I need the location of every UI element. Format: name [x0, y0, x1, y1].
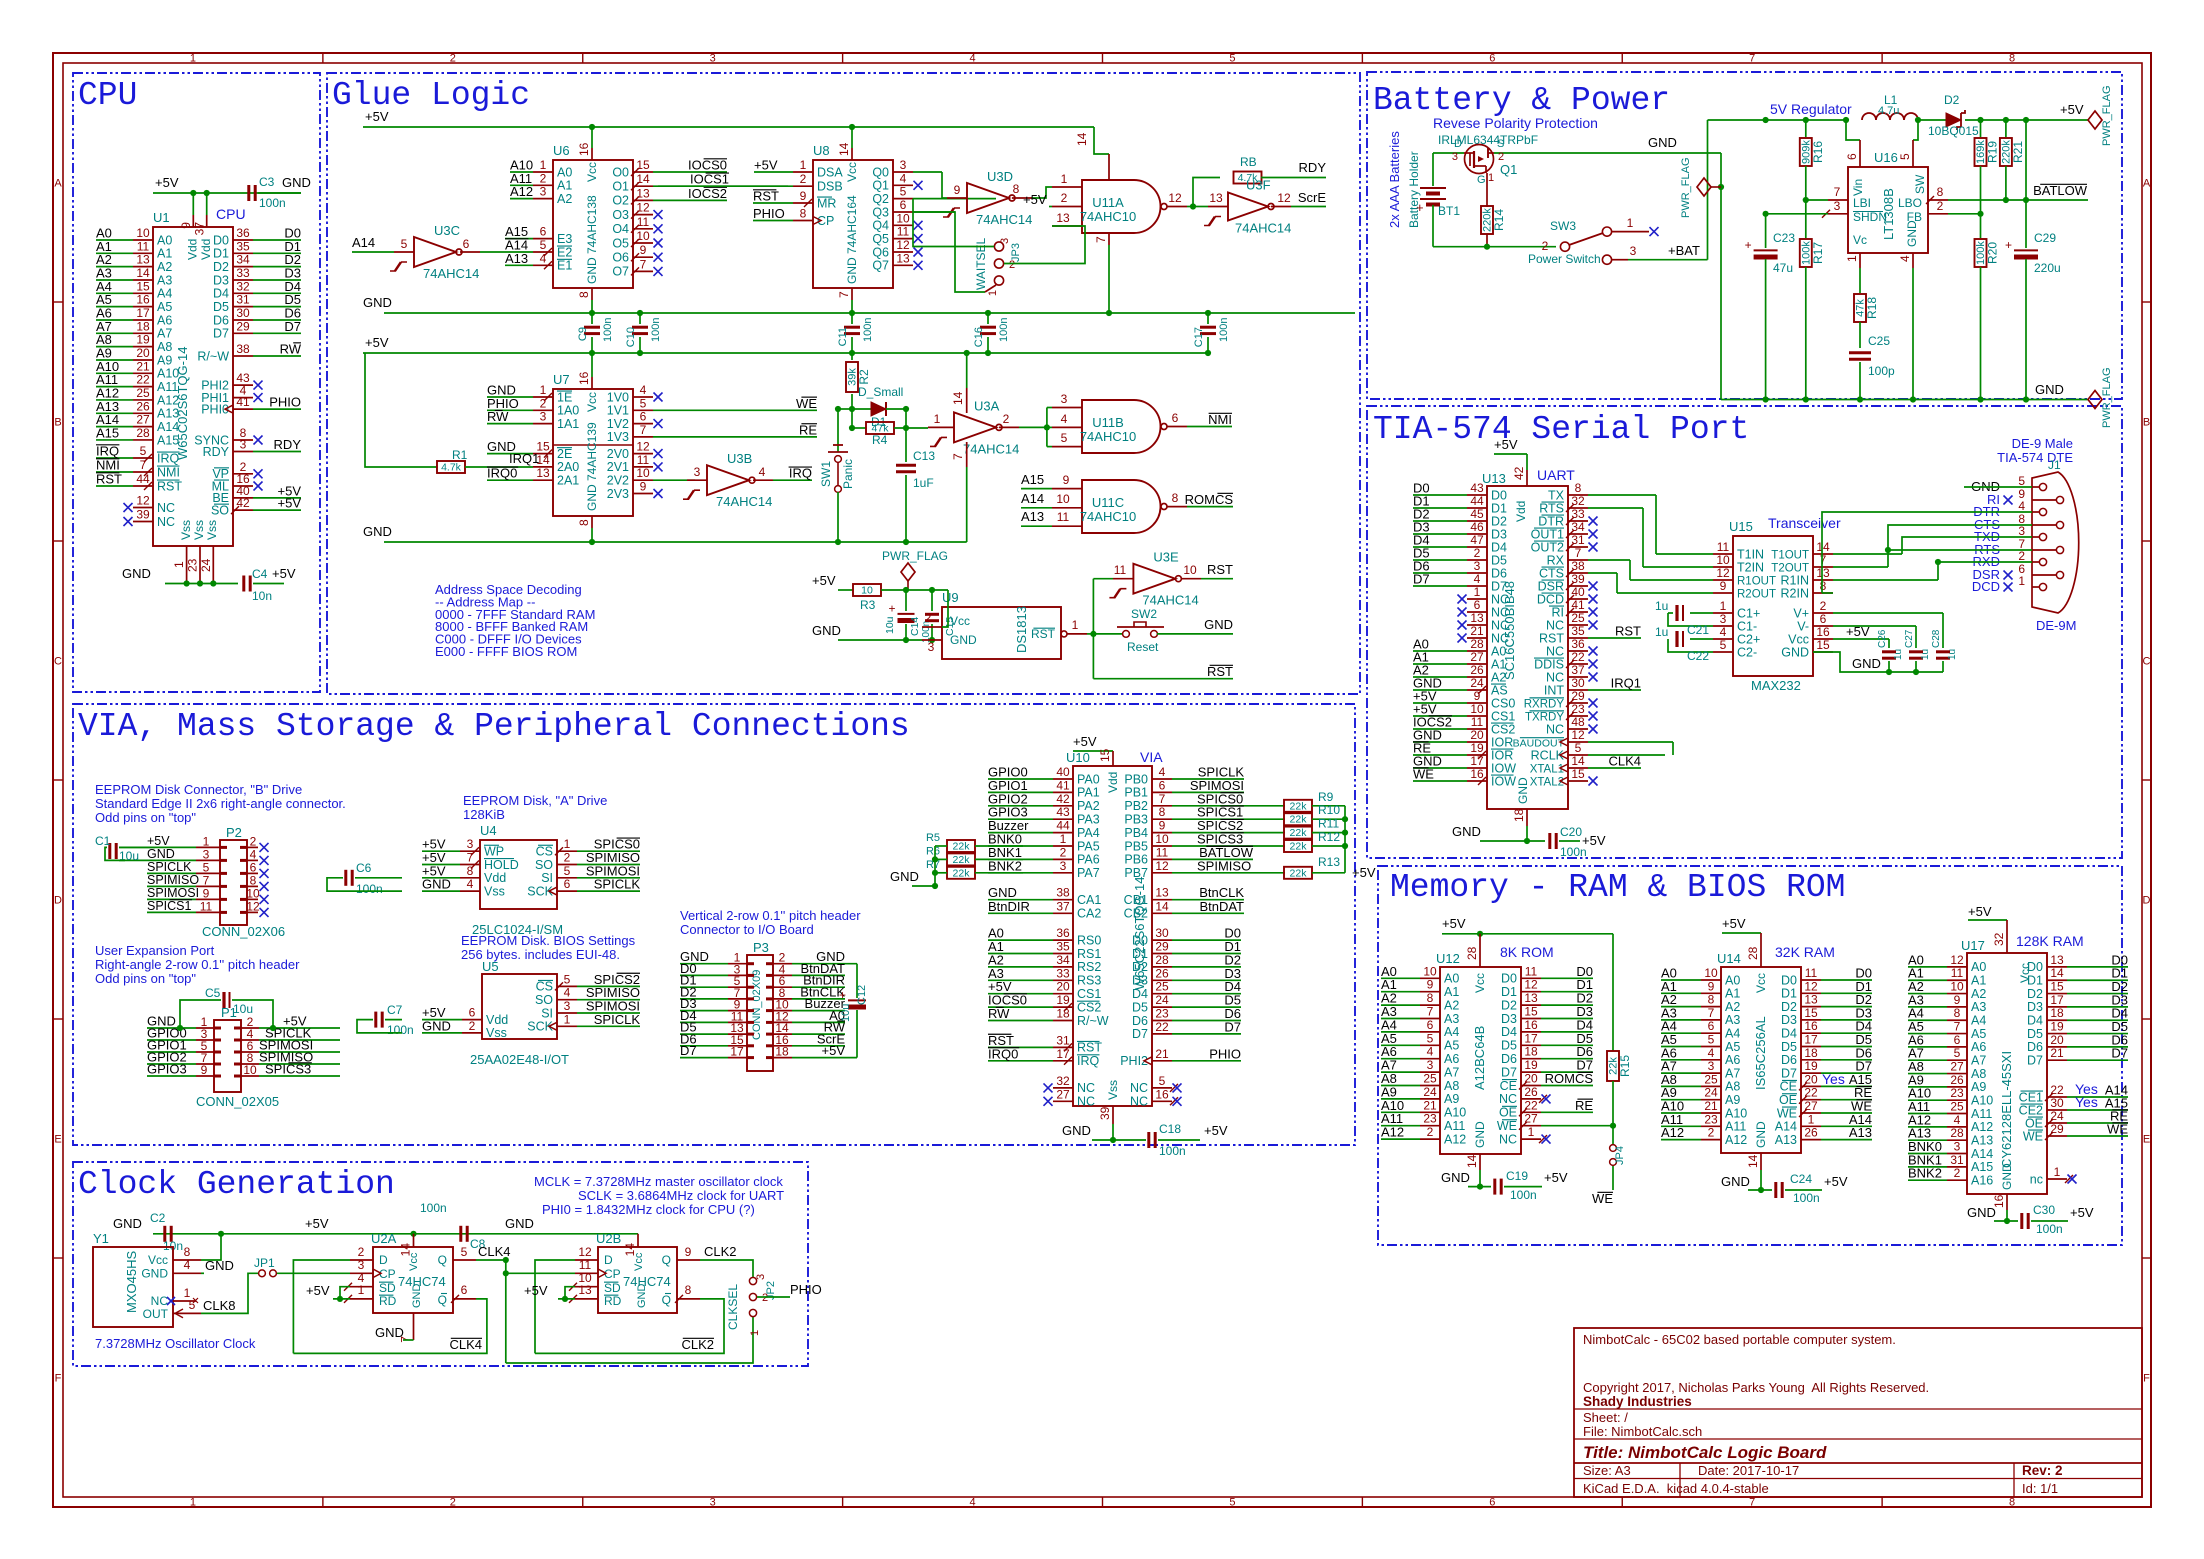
frame column ticks and numbers: [322, 53, 324, 63]
svg-text:1: 1: [934, 412, 941, 426]
svg-text:13: 13: [136, 253, 150, 267]
svg-text:C1: C1: [95, 834, 111, 848]
section box: Memory RAM & BIOS ROM: [1378, 866, 2122, 1245]
svg-text:C1-: C1-: [1737, 619, 1757, 633]
svg-text:JP4: JP4: [1614, 1146, 1626, 1165]
svg-text:D5: D5: [1781, 1040, 1797, 1054]
Y1 NC pin 1: [167, 1297, 175, 1305]
P3 pin 18: [773, 1057, 792, 1059]
svg-text:2V1: 2V1: [607, 460, 629, 474]
svg-text:NC: NC: [157, 501, 175, 515]
capacitor C30: [2020, 1213, 2023, 1229]
svg-text:BNK2: BNK2: [988, 858, 1022, 873]
svg-text:22: 22: [2050, 1083, 2064, 1097]
svg-text:22k: 22k: [1290, 800, 1308, 812]
U17 CY62128 RAM pin 29: [2047, 1135, 2067, 1137]
svg-text:28: 28: [1470, 637, 1484, 651]
svg-text:GND 74AHC164: GND 74AHC164: [845, 195, 859, 284]
U8 74AHC164 pin 1: [793, 171, 813, 173]
svg-text:A4: A4: [157, 287, 172, 301]
svg-text:Q1: Q1: [872, 179, 889, 193]
U6 74AHC138 pin 6: [533, 238, 553, 240]
svg-text:11: 11: [637, 215, 650, 229]
svg-text:2: 2: [1427, 1125, 1434, 1139]
svg-text:9: 9: [640, 243, 647, 257]
svg-text:A4: A4: [1725, 1027, 1740, 1041]
svg-text:5: 5: [140, 444, 147, 458]
P3 pin 4: [773, 974, 792, 976]
svg-text:C: C: [54, 656, 62, 668]
svg-text:OE: OE: [1499, 1106, 1517, 1120]
svg-text:11: 11: [200, 899, 213, 913]
op-amp U1 (W65C02 CPU) pin 20: [133, 359, 153, 361]
svg-text:CLK4: CLK4: [449, 1337, 482, 1352]
svg-text:100n: 100n: [650, 318, 662, 342]
svg-text:RW: RW: [487, 409, 509, 424]
svg-text:26: 26: [1470, 663, 1484, 677]
svg-text:9: 9: [203, 886, 210, 900]
svg-text:C6: C6: [356, 861, 372, 875]
U15 MAX232 pin 12: [1713, 579, 1733, 581]
svg-text:D6: D6: [2027, 1040, 2043, 1054]
svg-text:2: 2: [1937, 199, 1944, 213]
svg-text:C1+: C1+: [1737, 606, 1760, 620]
svg-text:32: 32: [1056, 1074, 1070, 1088]
GND drop on right: [1720, 153, 1722, 400]
svg-text:3: 3: [1060, 859, 1067, 873]
resistor R12 22k: [1284, 840, 1312, 852]
op-amp U1 (W65C02 CPU) pin 11: [133, 252, 153, 254]
svg-text:12: 12: [1950, 953, 1964, 967]
svg-text:RST: RST: [1207, 562, 1233, 577]
svg-text:C24: C24: [1790, 1172, 1812, 1186]
U4 25LC1024 body: [480, 840, 557, 909]
svg-text:EEPROM Disk Connector, "B" Dri: EEPROM Disk Connector, "B" Drive: [95, 782, 302, 797]
svg-text:13: 13: [1056, 211, 1070, 225]
svg-text:10: 10: [636, 229, 650, 243]
svg-text:6: 6: [1427, 1018, 1434, 1032]
svg-text:U2A: U2A: [371, 1231, 397, 1246]
svg-text:IOR: IOR: [1491, 735, 1513, 749]
junction U6 Vcc: [589, 124, 595, 130]
svg-text:11: 11: [1114, 563, 1127, 577]
svg-text:10: 10: [1155, 832, 1169, 846]
svg-text:R/~W: R/~W: [1077, 1014, 1109, 1028]
svg-text:DS1813: DS1813: [1014, 606, 1029, 653]
svg-text:Vss: Vss: [484, 884, 505, 898]
U13 SC16C550B UART pin 48: [1568, 728, 1588, 730]
svg-text:RST: RST: [1031, 627, 1056, 641]
svg-text:3: 3: [1954, 1140, 1961, 1154]
svg-text:A12BC64B: A12BC64B: [1472, 1026, 1487, 1090]
resistor R6 22k: [947, 853, 975, 865]
op-amp U1 (W65C02 CPU) pin 39: [133, 521, 153, 523]
svg-text:6: 6: [461, 1283, 468, 1297]
svg-text:1u: 1u: [1655, 599, 1668, 613]
svg-text:D2: D2: [2027, 987, 2043, 1001]
svg-text:18: 18: [136, 319, 150, 333]
svg-text:IRQ1: IRQ1: [1611, 676, 1641, 691]
svg-text:D7: D7: [1413, 572, 1430, 587]
svg-text:7: 7: [1954, 1020, 1961, 1034]
svg-text:14: 14: [1571, 754, 1585, 768]
svg-text:11: 11: [897, 225, 910, 239]
svg-text:10: 10: [1470, 702, 1484, 716]
svg-text:1: 1: [190, 1497, 196, 1509]
CLK4 to U2B CP and JP2: [505, 1260, 507, 1363]
svg-text:A6: A6: [1971, 1040, 1986, 1054]
svg-text:5: 5: [564, 864, 571, 878]
op-amp U1 (W65C02 CPU) pin 16: [133, 306, 153, 308]
U1 Vss pin 24: [212, 546, 214, 584]
svg-text:2: 2: [800, 172, 807, 186]
U8 74AHC164 pin 5: [893, 198, 913, 200]
svg-text:1: 1: [1845, 255, 1859, 262]
svg-text:14: 14: [1155, 899, 1169, 913]
svg-text:A1: A1: [557, 179, 572, 193]
svg-text:DDIS: DDIS: [1534, 657, 1564, 671]
svg-text:R11: R11: [1318, 817, 1339, 831]
svg-text:Date: 2017-10-17: Date: 2017-10-17: [1698, 1463, 1799, 1478]
svg-text:V-: V-: [1797, 619, 1809, 633]
svg-text:A: A: [2143, 178, 2151, 190]
svg-text:Vss: Vss: [205, 520, 219, 540]
svg-text:2: 2: [450, 1497, 456, 1509]
U15 MAX232 pin 4: [1713, 638, 1733, 640]
U12 AT28BC64B ROM pin 10: [1420, 977, 1440, 979]
U6 74AHC138 pin 3: [533, 198, 553, 200]
svg-text:RS2: RS2: [1077, 960, 1101, 974]
svg-text:Shady Industries: Shady Industries: [1583, 1394, 1692, 1409]
svg-text:10: 10: [246, 886, 260, 900]
svg-text:R5: R5: [926, 832, 940, 844]
svg-text:13: 13: [896, 251, 910, 265]
svg-text:C16: C16: [973, 327, 985, 347]
svg-text:74AHC14: 74AHC14: [423, 266, 479, 281]
U7 74AHC139 pin 9: [633, 493, 653, 495]
P2 pin 11: [196, 911, 220, 913]
svg-text:E3: E3: [557, 232, 572, 246]
svg-text:WE: WE: [796, 396, 817, 411]
svg-text:17: 17: [1056, 1047, 1070, 1061]
svg-text:T1IN: T1IN: [1737, 547, 1764, 561]
GND return under caps: [1813, 652, 1943, 672]
svg-text:Vcc: Vcc: [1473, 973, 1487, 993]
svg-text:NC: NC: [1546, 644, 1564, 658]
svg-text:D1: D1: [213, 247, 229, 261]
U4 25LC1024 pin 3: [460, 850, 480, 852]
P1 pin 1: [196, 1027, 214, 1029]
svg-text:47: 47: [1470, 533, 1484, 547]
svg-text:7: 7: [1094, 236, 1108, 243]
svg-text:3: 3: [358, 1258, 365, 1272]
svg-text:R2IN: R2IN: [1781, 586, 1809, 600]
U12 AT28BC64B ROM pin 8: [1420, 1004, 1440, 1006]
svg-text:WE: WE: [1592, 1191, 1613, 1206]
U11B output pin 6 NMI: [1167, 426, 1187, 428]
P3 pin 14: [773, 1033, 792, 1035]
P2 pin 1: [196, 846, 220, 848]
svg-text:U12: U12: [1436, 951, 1460, 966]
svg-text:RDY: RDY: [274, 437, 302, 452]
svg-text:A0: A0: [1971, 960, 1986, 974]
svg-text:6: 6: [1845, 153, 1859, 160]
svg-text:SD: SD: [379, 1281, 396, 1295]
U10 W65C22S VIA pin 11: [1152, 858, 1172, 860]
J1 pin 2 RXD: [2039, 558, 2046, 565]
svg-text:10n: 10n: [252, 589, 272, 603]
U10 W65C22S VIA pin 32: [1053, 1087, 1073, 1089]
svg-text:8: 8: [1427, 991, 1434, 1005]
svg-text:4: 4: [1427, 1045, 1434, 1059]
svg-text:45: 45: [1470, 507, 1484, 521]
U17 CY62128 RAM pin 19: [2047, 1033, 2067, 1035]
capacitor C13 1uF: [905, 428, 907, 462]
U3C output to U6 E2: [460, 251, 480, 253]
svg-text:37: 37: [1056, 899, 1070, 913]
junctions on R3 wire: [903, 587, 909, 593]
svg-text:A2: A2: [1971, 987, 1986, 1001]
resistor R1 4.7k: [437, 461, 465, 473]
U5 25AA02E48 pin 5: [557, 985, 577, 987]
U7 74AHC139 pin 10: [633, 479, 653, 481]
svg-text:A10: A10: [1971, 1094, 1993, 1108]
svg-text:14: 14: [623, 1243, 637, 1257]
svg-text:100n: 100n: [1218, 318, 1230, 342]
svg-text:SPICS3: SPICS3: [1197, 832, 1243, 847]
U14 IS65C256AL RAM pin 18: [1801, 1059, 1821, 1061]
svg-text:PB6: PB6: [1124, 853, 1148, 867]
connector P2 CONN_02X06: [220, 840, 247, 925]
svg-text:3: 3: [755, 1274, 767, 1280]
svg-text:RW: RW: [988, 1006, 1010, 1021]
svg-text:Vcc: Vcc: [950, 614, 970, 628]
svg-text:A1: A1: [1444, 985, 1459, 999]
svg-text:CLK2: CLK2: [704, 1244, 737, 1259]
svg-text:Vdd: Vdd: [1514, 501, 1528, 522]
svg-text:SI: SI: [541, 871, 553, 885]
svg-text:CP: CP: [604, 1267, 621, 1281]
svg-text:Q4: Q4: [872, 219, 889, 233]
U13 SC16C550B UART pin 2: [1467, 559, 1487, 561]
svg-text:38: 38: [1056, 886, 1070, 900]
U2B pin 8 Qbar: [677, 1298, 700, 1300]
svg-text:GND: GND: [1062, 1123, 1091, 1138]
U13 SC16C550B UART pin 41: [1568, 611, 1588, 613]
U17 CY62128 RAM pin 5: [1947, 1059, 1967, 1061]
svg-text:3: 3: [1061, 392, 1068, 406]
svg-text:Vdd: Vdd: [1106, 772, 1120, 793]
svg-text:PHIO: PHIO: [790, 1282, 822, 1297]
U4 25LC1024 pin 4: [460, 890, 480, 892]
U15 MAX232 pin 7: [1813, 566, 1833, 568]
U6 74AHC138 pin 13: [633, 199, 653, 201]
svg-text:2: 2: [469, 1019, 476, 1033]
Vin rail y120: [1708, 119, 1847, 121]
svg-text:A13: A13: [1971, 1133, 1993, 1147]
svg-text:20: 20: [1056, 980, 1070, 994]
svg-text:2: 2: [450, 53, 456, 65]
svg-text:HOLD: HOLD: [484, 858, 519, 872]
U13 SC16C550B UART pin 32: [1568, 507, 1588, 509]
svg-text:100n: 100n: [862, 318, 874, 342]
capacitor C19: [1493, 1179, 1496, 1195]
U17 CY62128 RAM pin 4: [1947, 1126, 1967, 1128]
svg-text:4: 4: [1474, 572, 1481, 586]
svg-text:100n: 100n: [356, 882, 383, 896]
U7 Vcc pin 16: [591, 353, 593, 377]
svg-text:3: 3: [710, 1497, 716, 1509]
svg-text:2V2: 2V2: [607, 474, 629, 488]
U15 MAX232 pin 9: [1713, 592, 1733, 594]
svg-text:Copyright 2017, Nicholas Parks: Copyright 2017, Nicholas Parks Young All…: [1583, 1380, 1929, 1395]
svg-text:2: 2: [1061, 191, 1068, 205]
U8 74AHC164 pin 9: [793, 202, 813, 204]
svg-text:R13: R13: [1318, 855, 1340, 869]
U12 AT28BC64B ROM pin 25: [1420, 1085, 1440, 1087]
U7 74AHC139 pin 5: [633, 409, 653, 411]
svg-text:10u: 10u: [840, 1004, 852, 1022]
svg-text:+: +: [839, 988, 846, 1002]
svg-text:A14: A14: [1775, 1120, 1797, 1134]
svg-text:19: 19: [1524, 1058, 1538, 1072]
svg-text:D3: D3: [1491, 527, 1507, 541]
svg-text:F: F: [2143, 1373, 2150, 1385]
svg-text:2: 2: [564, 851, 571, 865]
svg-text:D0: D0: [1501, 972, 1517, 986]
svg-text:1: 1: [564, 1012, 571, 1026]
svg-text:C: C: [2143, 656, 2151, 668]
svg-text:D5: D5: [1491, 553, 1507, 567]
J1 pin 3 TXD: [2039, 533, 2046, 540]
svg-text:9: 9: [1427, 978, 1434, 992]
svg-text:D6: D6: [1501, 1052, 1517, 1066]
svg-text:Yes: Yes: [2075, 1094, 2098, 1110]
op-amp U1 (W65C02 CPU) pin 44: [133, 485, 153, 487]
svg-text:R18: R18: [1865, 297, 1879, 319]
U12 AT28BC64B ROM pin 11: [1521, 977, 1541, 979]
svg-text:A2: A2: [1725, 1000, 1740, 1014]
svg-text:O0: O0: [612, 165, 629, 179]
U6 74AHC138 body: [553, 160, 633, 288]
svg-text:BNK2: BNK2: [1908, 1166, 1942, 1181]
U5 25AA02E48 pin 4: [557, 999, 577, 1001]
svg-text:10: 10: [636, 466, 650, 480]
inductor L1 4.7u: [1862, 113, 1918, 120]
svg-text:12: 12: [1716, 566, 1730, 580]
resistor R5 22k: [947, 840, 975, 852]
svg-text:J1: J1: [2048, 458, 2061, 472]
svg-text:+: +: [1745, 238, 1752, 252]
svg-text:+5V: +5V: [1073, 734, 1097, 749]
svg-text:PB1: PB1: [1124, 786, 1148, 800]
svg-text:E2: E2: [557, 245, 572, 259]
svg-text:18: 18: [1512, 808, 1526, 822]
U15 MAX232 pin 16: [1813, 638, 1833, 640]
svg-text:22k: 22k: [1290, 827, 1308, 839]
U9 pin 3 GND: [922, 639, 942, 641]
U10 W65C22S VIA pin 37: [1053, 912, 1073, 914]
op-amp U1 (W65C02 CPU) body: [153, 227, 233, 546]
svg-text:+: +: [889, 602, 896, 616]
svg-text:22k: 22k: [953, 854, 971, 866]
svg-text:DSB: DSB: [817, 180, 843, 194]
svg-text:22k: 22k: [1290, 867, 1308, 879]
svg-text:RB: RB: [1240, 155, 1257, 169]
svg-text:C27: C27: [1904, 629, 1915, 648]
svg-text:P2: P2: [226, 825, 242, 840]
junction Y1 Vcc: [218, 1231, 224, 1237]
svg-text:+: +: [2005, 238, 2012, 252]
svg-text:C22: C22: [1687, 649, 1709, 663]
svg-text:+5V: +5V: [1846, 624, 1870, 639]
svg-text:14: 14: [636, 172, 650, 186]
svg-text:A15: A15: [1971, 1160, 1993, 1174]
svg-text:OUT2: OUT2: [1531, 540, 1564, 554]
svg-text:28: 28: [136, 426, 150, 440]
U2B pin 11 CP: [575, 1272, 598, 1274]
svg-text:10: 10: [1183, 563, 1197, 577]
svg-text:CLK2: CLK2: [681, 1337, 714, 1352]
+BAT riser to Vin rail: [1707, 120, 1709, 260]
resistor R13 22k: [1284, 867, 1312, 879]
svg-text:4: 4: [184, 1258, 191, 1272]
capacitor C24: [1774, 1182, 1777, 1198]
U13 SC16C550B UART pin 4: [1467, 585, 1487, 587]
svg-text:WE: WE: [2023, 1129, 2043, 1143]
U13 SC16C550B UART pin 3: [1467, 572, 1487, 574]
svg-text:NC: NC: [1546, 618, 1564, 632]
U17 CY62128 RAM pin 7: [1947, 1033, 1967, 1035]
svg-text:3: 3: [2018, 524, 2025, 538]
section box: Battery & Power: [1367, 72, 2122, 399]
U10 W65C22S VIA pin 34: [1053, 966, 1073, 968]
svg-text:6: 6: [1489, 1497, 1495, 1509]
svg-text:R2: R2: [857, 369, 871, 385]
U10 W65C22S VIA body: [1073, 766, 1152, 1106]
svg-text:OE: OE: [2025, 1116, 2043, 1130]
U15 MAX232 pin 10: [1713, 566, 1733, 568]
capacitor C18: [1147, 1132, 1150, 1148]
svg-text:10: 10: [1950, 980, 1964, 994]
svg-text:O2: O2: [612, 194, 629, 208]
U7 74AHC139 pin 1: [533, 396, 553, 398]
wire Q0 to U3D: [942, 172, 947, 198]
svg-text:A3: A3: [1971, 1000, 1986, 1014]
svg-text:34: 34: [1056, 953, 1070, 967]
BAUDOUT-RCLK loop: [1672, 742, 1674, 755]
svg-text:3: 3: [203, 847, 210, 861]
U17 CY62128 RAM pin 3: [1947, 1153, 1967, 1155]
svg-text:NMI: NMI: [96, 458, 120, 473]
svg-text:2: 2: [358, 1245, 365, 1259]
U10 GND pin 39: [1112, 1106, 1114, 1124]
svg-text:4: 4: [540, 251, 547, 265]
svg-text:Q7: Q7: [872, 259, 889, 273]
svg-text:10: 10: [861, 585, 873, 597]
svg-text:14: 14: [136, 266, 150, 280]
junction dot: [849, 425, 855, 431]
svg-text:R6: R6: [926, 845, 940, 857]
svg-text:12: 12: [1804, 979, 1818, 993]
U12 AT28BC64B ROM pin 12: [1521, 991, 1541, 993]
svg-text:74AHC14: 74AHC14: [1142, 593, 1198, 608]
svg-text:25: 25: [136, 386, 150, 400]
svg-text:Rev: 2: Rev: 2: [2022, 1463, 2063, 1478]
op-amp U1 (W65C02 CPU) pin 4: [233, 397, 253, 399]
U7 74AHC139 body: [553, 389, 633, 516]
U15 MAX232 pin 13: [1813, 579, 1833, 581]
